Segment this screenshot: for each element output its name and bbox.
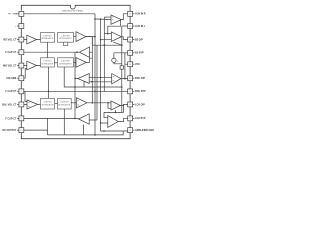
- svg-text:CONTROL: CONTROL: [43, 102, 52, 104]
- svg-text:DC OUTPUT: DC OUTPUT: [2, 129, 16, 132]
- svg-text:ATTENUATOR: ATTENUATOR: [41, 37, 54, 40]
- svg-text:LCH BYP: LCH BYP: [135, 117, 146, 120]
- svg-text:ATTENUATOR: ATTENUATOR: [41, 62, 54, 65]
- svg-text:1 dB STEP: 1 dB STEP: [61, 36, 71, 38]
- svg-text:I₁: I₁: [117, 60, 119, 62]
- svg-text:2 dB STEP: 2 dB STEP: [61, 61, 71, 63]
- svg-text:VOLUME: VOLUME: [6, 77, 17, 80]
- svg-text:RCH O/P: RCH O/P: [135, 77, 145, 80]
- svg-text:RCH BYP: RCH BYP: [135, 90, 146, 93]
- svg-text:BAL VOL CT: BAL VOL CT: [2, 103, 17, 106]
- svg-text:LM1035 (TOP VIEW): LM1035 (TOP VIEW): [62, 11, 83, 13]
- svg-text:CONTROL: CONTROL: [43, 61, 52, 63]
- svg-text:RO VOL CT: RO VOL CT: [3, 38, 17, 41]
- svg-text:1 dB STEP: 1 dB STEP: [60, 102, 70, 104]
- svg-text:LCH O/P: LCH O/P: [135, 103, 145, 106]
- svg-text:F CAP CT: F CAP CT: [5, 90, 17, 93]
- svg-text:B3 BYP: B3 BYP: [135, 52, 144, 55]
- svg-text:ATTENUATOR: ATTENUATOR: [42, 103, 55, 106]
- svg-text:ATTENUATOR: ATTENUATOR: [60, 62, 73, 65]
- svg-text:B3 O/P: B3 O/P: [135, 38, 143, 41]
- svg-text:CONTROL: CONTROL: [43, 36, 52, 38]
- svg-text:AUX IN R: AUX IN R: [135, 13, 146, 16]
- svg-text:F CAP CT: F CAP CT: [5, 117, 17, 120]
- svg-text:AMPLIFIER GND: AMPLIFIER GND: [135, 129, 154, 132]
- svg-text:ATTENUATOR: ATTENUATOR: [60, 37, 73, 40]
- svg-text:F CAP CT: F CAP CT: [5, 51, 17, 54]
- svg-text:AUX IN L: AUX IN L: [135, 25, 146, 28]
- svg-text:MO VOL CT: MO VOL CT: [3, 64, 17, 67]
- svg-text:ATTENUATOR: ATTENUATOR: [58, 103, 71, 106]
- svg-text:VCC: VCC: [135, 63, 140, 66]
- svg-text:~: ~: [15, 25, 17, 28]
